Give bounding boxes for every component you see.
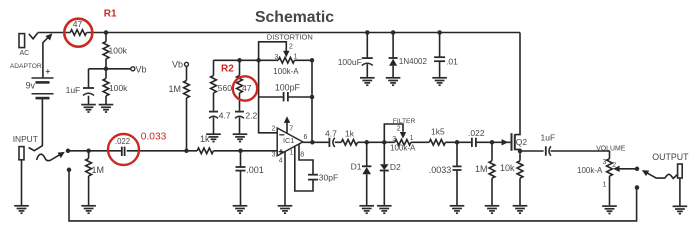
svg-text:2.2: 2.2 [245,110,257,120]
svg-text:.022: .022 [468,128,485,138]
svg-text:1M: 1M [92,165,105,175]
svg-text:ADAPTOR: ADAPTOR [10,63,42,70]
svg-text:100k-A: 100k-A [390,144,416,153]
svg-text:1M: 1M [168,84,181,94]
svg-text:R1: R1 [104,9,117,20]
svg-text:Vb: Vb [172,60,183,70]
svg-text:+: + [46,67,51,76]
svg-text:3: 3 [272,152,276,159]
svg-text:100pF: 100pF [275,83,301,93]
svg-text:4.7: 4.7 [325,128,337,138]
svg-text:D2: D2 [390,162,401,172]
svg-text:100k-A: 100k-A [577,166,603,175]
svg-text:100k-A: 100k-A [273,67,299,76]
svg-text:1: 1 [410,135,414,142]
svg-text:2: 2 [272,126,276,133]
svg-text:100k: 100k [109,83,128,93]
svg-text:100uF: 100uF [338,57,362,67]
svg-text:.0033: .0033 [429,165,452,175]
svg-text:2: 2 [397,126,401,133]
svg-text:.022: .022 [115,137,130,146]
svg-text:2: 2 [289,43,293,50]
svg-text:1k: 1k [200,134,210,144]
svg-text:100k: 100k [109,46,128,56]
svg-text:Schematic: Schematic [255,9,334,26]
svg-text:FILTER: FILTER [393,118,416,125]
svg-text:47: 47 [73,19,83,29]
svg-text:3: 3 [392,136,396,143]
svg-text:1: 1 [290,150,294,157]
svg-text:7: 7 [289,126,293,133]
svg-text:Vb: Vb [136,64,147,74]
svg-text:.001: .001 [246,165,264,175]
svg-text:.01: .01 [446,56,458,66]
svg-text:DISTORTION: DISTORTION [267,32,313,41]
svg-text:560: 560 [218,83,232,93]
svg-text:47: 47 [242,83,252,93]
svg-text:1M: 1M [475,164,488,174]
svg-text:1k5: 1k5 [431,127,445,137]
svg-text:OUTPUT: OUTPUT [652,152,689,162]
svg-text:1uF: 1uF [66,85,81,95]
svg-text:4.7: 4.7 [219,110,231,120]
svg-text:IC1: IC1 [283,136,294,145]
svg-text:AC: AC [20,50,30,57]
svg-text:9v: 9v [26,81,36,91]
svg-text:8: 8 [300,152,304,159]
svg-text:1: 1 [602,182,606,189]
svg-text:3: 3 [274,54,278,61]
svg-text:R2: R2 [221,63,234,74]
svg-text:4: 4 [279,157,283,164]
svg-text:0.033: 0.033 [141,132,167,143]
svg-text:1k: 1k [345,128,355,138]
svg-text:10k: 10k [500,163,515,173]
svg-text:6: 6 [304,134,308,141]
svg-text:Q2: Q2 [516,137,528,147]
svg-text:2: 2 [612,162,616,169]
svg-text:D1: D1 [351,162,362,172]
svg-text:INPUT: INPUT [13,134,38,144]
svg-text:1uF: 1uF [541,132,556,142]
svg-text:VOLUME: VOLUME [596,146,626,153]
svg-text:3: 3 [602,159,606,166]
svg-text:1: 1 [294,53,298,60]
svg-text:30pF: 30pF [319,173,338,183]
svg-text:1N4002: 1N4002 [399,57,428,66]
